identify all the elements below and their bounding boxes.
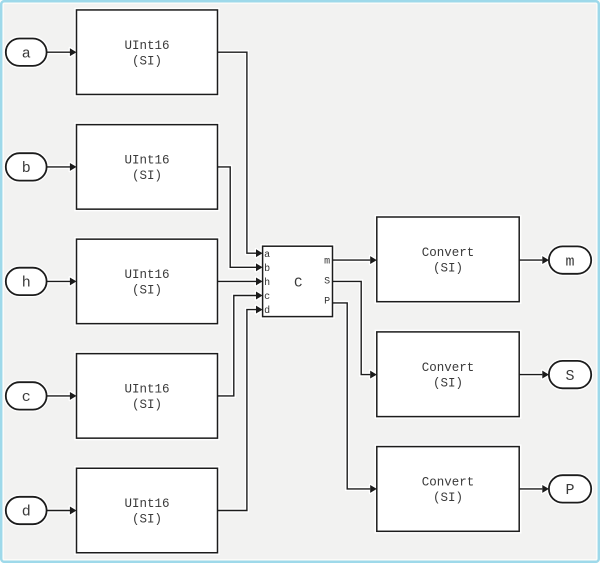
- block UInt16 (SI) #2: [77, 125, 218, 209]
- block Convert (SI) #1: [377, 217, 519, 302]
- svg-text:Convert: Convert: [422, 246, 475, 260]
- block UInt16 (SI) #1: [77, 10, 218, 95]
- svg-text:m: m: [324, 257, 330, 268]
- bus creator block C: [263, 246, 333, 317]
- svg-text:UInt16: UInt16: [124, 497, 169, 511]
- block Convert (SI) #2: [377, 332, 519, 417]
- svg-text:(SI): (SI): [132, 54, 162, 68]
- svg-text:(SI): (SI): [132, 398, 162, 412]
- wire inport h to UInt16: [47, 277, 77, 285]
- inport d oval: [6, 497, 47, 524]
- svg-text:Convert: Convert: [422, 476, 475, 490]
- svg-text:S: S: [565, 368, 574, 385]
- wire UInt16#5 to C port d: [218, 306, 263, 511]
- svg-text:C: C: [294, 276, 302, 292]
- wire UInt16#1 to C port a: [218, 52, 263, 257]
- svg-text:a: a: [264, 250, 270, 261]
- svg-text:c: c: [22, 389, 31, 406]
- svg-text:(SI): (SI): [433, 262, 463, 276]
- svg-text:a: a: [22, 45, 31, 62]
- block UInt16 (SI) #4: [77, 354, 218, 439]
- wire UInt16#4 to C port c: [218, 292, 263, 396]
- svg-text:UInt16: UInt16: [124, 383, 169, 397]
- svg-text:UInt16: UInt16: [124, 268, 169, 282]
- svg-text:h: h: [264, 277, 270, 289]
- wire Convert#3 to outport P: [519, 485, 549, 493]
- svg-text:(SI): (SI): [132, 513, 162, 527]
- wire UInt16#3 to C port h: [218, 277, 263, 285]
- wire Convert#1 to outport m: [519, 256, 549, 264]
- svg-text:UInt16: UInt16: [124, 154, 169, 168]
- inport a oval: [6, 39, 47, 66]
- svg-text:m: m: [565, 253, 574, 270]
- wire C port S to Convert#2: [333, 281, 377, 378]
- block UInt16 (SI) #3: [77, 239, 218, 324]
- outport S oval: [549, 361, 591, 388]
- block UInt16 (SI) #5: [77, 468, 218, 553]
- inport h oval: [6, 268, 47, 295]
- wire C port P to Convert#3: [333, 303, 377, 493]
- svg-text:S: S: [324, 276, 330, 287]
- svg-text:c: c: [264, 292, 270, 303]
- inport b oval: [6, 153, 47, 180]
- wire Convert#2 to outport S: [519, 371, 549, 379]
- wire inport c to UInt16: [47, 392, 77, 400]
- svg-text:d: d: [264, 305, 270, 317]
- svg-text:(SI): (SI): [433, 376, 463, 390]
- svg-text:b: b: [264, 263, 270, 275]
- wire UInt16#2 to C port b: [218, 167, 263, 271]
- wire C port m to Convert#1: [333, 256, 377, 264]
- outport m oval: [549, 246, 591, 273]
- wire inport b to UInt16: [47, 163, 77, 171]
- block Convert (SI) #3: [377, 447, 519, 532]
- svg-text:(SI): (SI): [132, 284, 162, 298]
- svg-text:(SI): (SI): [132, 169, 162, 183]
- outport P oval: [549, 475, 591, 502]
- svg-text:(SI): (SI): [433, 491, 463, 505]
- svg-text:P: P: [324, 296, 330, 307]
- svg-text:Convert: Convert: [422, 361, 475, 375]
- svg-text:h: h: [22, 275, 31, 292]
- wire inport a to UInt16: [47, 48, 77, 56]
- svg-text:b: b: [22, 160, 31, 177]
- wire inport d to UInt16: [47, 507, 77, 515]
- inport c oval: [6, 382, 47, 409]
- svg-text:d: d: [22, 504, 31, 521]
- svg-text:P: P: [565, 482, 574, 499]
- svg-text:UInt16: UInt16: [124, 39, 169, 53]
